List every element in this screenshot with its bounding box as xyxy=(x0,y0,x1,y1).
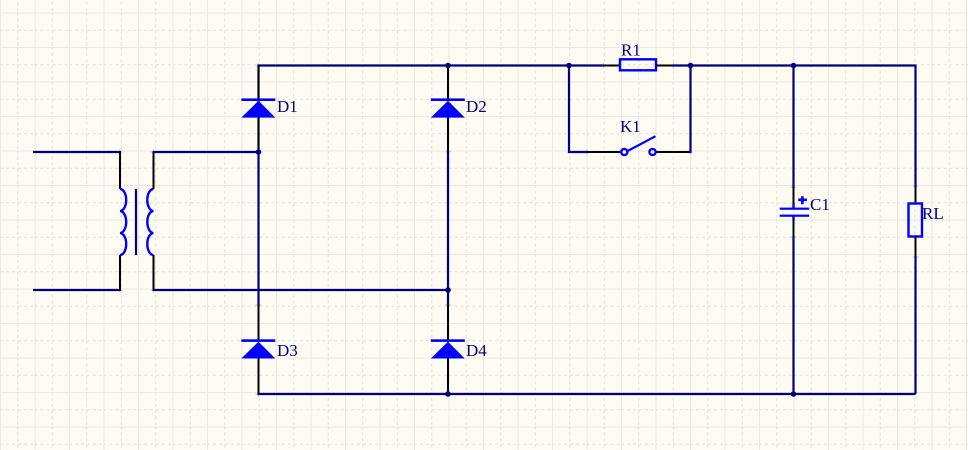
wire: left leg between junction and D3 xyxy=(257,152,259,306)
switch K1 lever xyxy=(628,136,656,151)
diode D1 body xyxy=(241,101,275,118)
switch K1 pin right xyxy=(656,151,689,153)
diode D1 pin bottom xyxy=(258,118,260,152)
diode D3 cathode bar xyxy=(241,339,275,342)
diode D2 body xyxy=(431,101,465,118)
switch K1 contact right xyxy=(649,149,655,155)
junction: top rail / R1-K1 right xyxy=(688,63,694,69)
resistor RL pin top xyxy=(915,186,917,204)
resistor R1 pin left xyxy=(603,65,620,67)
junction: top rail / R1-K1 left xyxy=(566,63,572,69)
svg-text:RL: RL xyxy=(922,204,944,223)
diode D4 cathode bar xyxy=(431,339,465,342)
switch K1 pin left xyxy=(587,151,621,153)
wire: bottom rail xyxy=(259,393,916,394)
diode D4 pin top xyxy=(447,305,449,341)
capacitor C1 pin top xyxy=(793,187,795,205)
svg-text:C1: C1 xyxy=(810,195,830,214)
diode D2 pin bottom xyxy=(447,118,449,152)
wire: C1 branch top xyxy=(792,66,794,189)
resistor RL pin bottom xyxy=(915,237,917,258)
capacitor C1 plate bottom xyxy=(780,215,810,217)
transformer T1 primary pin top xyxy=(119,151,121,189)
wire: top rail left segment xyxy=(259,66,570,152)
wire: C1 branch bottom xyxy=(792,237,794,394)
diode D2 pin top xyxy=(447,66,449,100)
wire: RL branch top xyxy=(914,65,916,188)
transformer T1 primary pin bottom xyxy=(119,255,121,291)
junction: bottom rail / D4 xyxy=(445,391,451,397)
transformer T1 primary winding xyxy=(120,189,126,255)
wire: RL branch bottom xyxy=(914,256,916,394)
wire: top rail right segment xyxy=(691,64,916,66)
svg-text:K1: K1 xyxy=(620,117,641,136)
diode D1 pin top xyxy=(258,66,260,100)
transformer T1 secondary pin bottom xyxy=(153,255,155,291)
resistor RL body xyxy=(909,204,923,237)
junction: bottom rail / C1 xyxy=(791,391,797,397)
switch K1 contact left xyxy=(621,149,627,155)
capacitor C1 bottom stub xyxy=(792,216,794,221)
junction: secondary top / bridge left xyxy=(256,149,262,155)
junction: secondary bottom / bridge right xyxy=(445,287,451,293)
wire: K1 left branch xyxy=(569,66,588,153)
capacitor C1 top stub xyxy=(792,204,794,209)
diode D3 pin top xyxy=(258,305,260,341)
svg-text:R1: R1 xyxy=(621,41,641,60)
svg-text:D4: D4 xyxy=(466,341,487,360)
junction: top rail / D2 xyxy=(445,63,451,69)
diode D3 pin bottom xyxy=(258,359,260,395)
diode D1 cathode bar xyxy=(241,98,275,101)
junction: top rail / C1 xyxy=(791,63,797,69)
capacitor C1 plus sign xyxy=(798,196,807,204)
diode D3 body xyxy=(241,342,275,359)
wire: K1 right branch xyxy=(688,66,691,153)
svg-text:D3: D3 xyxy=(277,341,298,360)
diode D4 pin bottom xyxy=(447,359,449,395)
wire: secondary top to bridge left leg xyxy=(154,151,259,153)
wire: primary bottom lead xyxy=(33,289,120,291)
capacitor C1 pin bottom xyxy=(793,220,795,238)
resistor R1 pin right xyxy=(656,65,673,67)
wire: right leg between D2 and D4 xyxy=(447,151,449,306)
transformer T1 core xyxy=(135,189,137,255)
diode D4 body xyxy=(431,342,465,359)
diode D2 cathode bar xyxy=(431,98,465,101)
transformer T1 secondary winding xyxy=(147,189,153,255)
svg-text:D1: D1 xyxy=(277,97,298,116)
wire: R1 left feed xyxy=(569,64,604,66)
pin hotspot crosses (pale blue) xyxy=(117,63,919,398)
resistor R1 body xyxy=(620,59,656,70)
transformer T1 secondary pin top xyxy=(153,151,155,189)
wire: secondary bottom to bridge right leg xyxy=(154,289,449,291)
svg-text:D2: D2 xyxy=(466,97,487,116)
wire: primary top lead xyxy=(33,151,120,153)
capacitor C1 plate top xyxy=(780,208,810,210)
wire: R1 right feed xyxy=(672,64,691,66)
